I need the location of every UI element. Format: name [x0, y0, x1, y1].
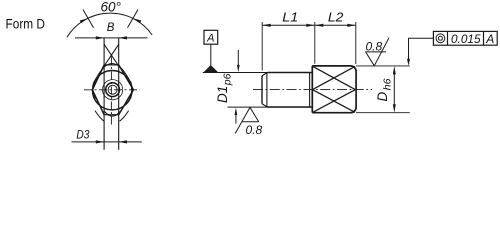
svg-text:D3: D3 — [76, 128, 89, 142]
svg-text:L1: L1 — [282, 11, 298, 25]
svg-text:0.015: 0.015 — [451, 32, 481, 46]
svg-text:60°: 60° — [101, 0, 122, 15]
svg-text:A: A — [206, 33, 214, 45]
svg-text:Dh6: Dh6 — [375, 78, 393, 101]
svg-text:0.8: 0.8 — [366, 40, 383, 54]
svg-text:L2: L2 — [328, 11, 344, 25]
svg-text:Form D: Form D — [6, 16, 46, 32]
svg-text:D1p6: D1p6 — [215, 73, 233, 103]
svg-text:B: B — [107, 22, 115, 34]
svg-text:A: A — [485, 32, 494, 46]
svg-text:0.8: 0.8 — [246, 123, 263, 137]
